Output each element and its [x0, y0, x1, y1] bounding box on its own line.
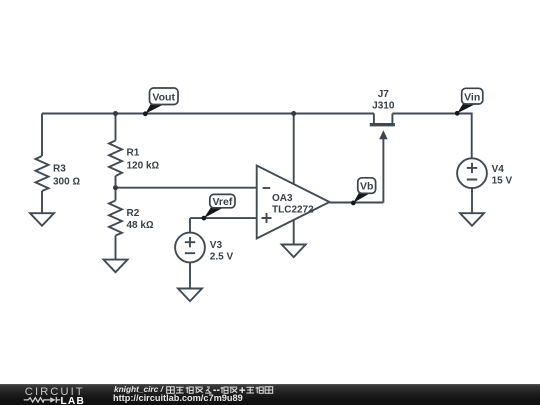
svg-text:J310: J310: [372, 100, 395, 111]
svg-text:2.5 V: 2.5 V: [210, 252, 234, 263]
svg-text:15 V: 15 V: [492, 176, 513, 187]
svg-text:LAB: LAB: [61, 396, 86, 405]
svg-text:J7: J7: [378, 89, 390, 100]
svg-text:R2: R2: [127, 208, 140, 219]
svg-text:48 kΩ: 48 kΩ: [127, 220, 154, 231]
svg-text:R1: R1: [127, 148, 140, 159]
svg-text:R3: R3: [53, 164, 66, 175]
svg-text:Vref: Vref: [212, 196, 232, 208]
svg-text:300 Ω: 300 Ω: [53, 177, 80, 188]
svg-text:V3: V3: [210, 240, 223, 251]
svg-text:OA3: OA3: [272, 193, 293, 204]
svg-text:V4: V4: [492, 164, 505, 175]
svg-text:120 kΩ: 120 kΩ: [127, 161, 160, 172]
svg-text:TLC2272: TLC2272: [272, 205, 314, 216]
svg-text:Vin: Vin: [464, 91, 480, 103]
svg-text:Vb: Vb: [360, 181, 373, 193]
svg-text:Vout: Vout: [152, 92, 175, 104]
